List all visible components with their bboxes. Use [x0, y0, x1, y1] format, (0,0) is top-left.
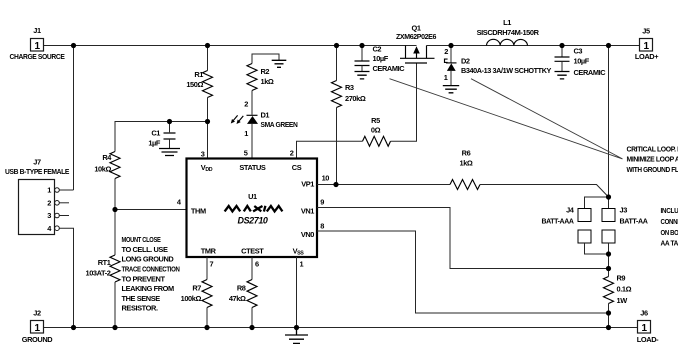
svg-text:LONG GROUND: LONG GROUND [122, 255, 175, 264]
resistor R9 0.1ohm 1W [604, 269, 632, 328]
wire CS pin to R5 [297, 141, 363, 158]
junction dots battery line [606, 194, 611, 315]
svg-text:R3: R3 [345, 83, 354, 92]
svg-text:GROUND: GROUND [22, 335, 54, 344]
wire VN0 pin 8 to R9 bottom [317, 222, 609, 313]
callout lines critical loop [390, 79, 623, 159]
svg-text:LOAD+: LOAD+ [635, 52, 659, 61]
svg-text:J7: J7 [33, 157, 41, 166]
wire THM pin 4 [115, 198, 187, 210]
svg-text:1: 1 [35, 323, 41, 334]
svg-text:VN0: VN0 [301, 230, 314, 239]
svg-text:U1: U1 [248, 192, 257, 201]
resistor R7 100kohm [181, 257, 214, 328]
svg-text:9: 9 [320, 198, 324, 207]
junction dots top rail [71, 43, 611, 48]
wire J7 pin 4 to ground rail [59, 228, 73, 327]
svg-text:ON BOARD: ON BOARD [661, 228, 678, 237]
svg-text:1W: 1W [617, 296, 628, 305]
svg-text:1kΩ: 1kΩ [261, 77, 274, 86]
transistor Q1 ZXM62P02E6 [396, 23, 436, 63]
svg-text:150Ω: 150Ω [186, 80, 203, 89]
junction dot THM [112, 207, 117, 212]
junction dots ground rail [71, 325, 611, 330]
svg-text:J3: J3 [620, 206, 628, 215]
svg-text:THE SENSE: THE SENSE [122, 294, 161, 303]
svg-text:C2: C2 [373, 44, 382, 53]
note text critical loop [627, 144, 678, 173]
connector J5 LOAD+ [635, 27, 659, 62]
svg-text:2: 2 [444, 47, 448, 56]
svg-text:AA TABS: AA TABS [661, 238, 678, 247]
svg-text:CS: CS [292, 163, 302, 172]
wire J7 pin 1 stub [59, 189, 73, 191]
ground below C3 [555, 72, 570, 79]
ground below C1 [159, 149, 180, 156]
svg-text:CONNECTION: CONNECTION [661, 217, 678, 226]
svg-text:SISCDRH74M-150R: SISCDRH74M-150R [477, 28, 540, 37]
svg-text:INCLUDES: INCLUDES [661, 206, 678, 215]
wire R6 to battery plus [480, 185, 609, 198]
svg-text:SMA GREEN: SMA GREEN [261, 120, 298, 129]
svg-text:10µF: 10µF [574, 56, 590, 65]
svg-text:J4: J4 [566, 206, 575, 215]
ground below D2 [443, 86, 459, 93]
svg-text:CRITICAL LOOP. M: CRITICAL LOOP. M [627, 144, 678, 153]
svg-text:0Ω: 0Ω [371, 126, 381, 135]
svg-text:USB B-TYPE FEMALE: USB B-TYPE FEMALE [5, 167, 69, 176]
resistor R1 150ohm [186, 46, 212, 159]
svg-text:8: 8 [320, 222, 324, 231]
wire J7 pin 3 stub [59, 215, 69, 217]
pin number 3 VDD [201, 150, 205, 159]
svg-text:Q1: Q1 [411, 23, 420, 32]
svg-text:10: 10 [322, 173, 330, 182]
logo maxim [225, 206, 283, 212]
svg-text:1µF: 1µF [148, 138, 161, 147]
svg-text:47kΩ: 47kΩ [229, 294, 246, 303]
capacitor C2 10uF CERAMIC [355, 44, 406, 73]
chip U1 DS2710 [187, 159, 318, 258]
wire bottom ground rail [44, 327, 638, 329]
wire battery stack vertical [608, 46, 610, 209]
svg-text:D2: D2 [461, 57, 470, 66]
svg-text:VN1: VN1 [301, 206, 314, 215]
svg-text:STATUS: STATUS [239, 163, 266, 172]
capacitor C3 10uF CERAMIC [555, 46, 607, 78]
svg-text:C1: C1 [151, 129, 160, 138]
svg-text:7: 7 [210, 260, 214, 269]
note text includes connection [661, 206, 678, 247]
resistor R3 270kohm [332, 46, 366, 185]
svg-text:3: 3 [201, 150, 205, 159]
ground at VSS [285, 328, 308, 344]
svg-text:BATT-AA: BATT-AA [620, 216, 649, 225]
resistor R2 1kohm [244, 64, 274, 115]
svg-text:LEAKING FROM: LEAKING FROM [122, 284, 175, 293]
svg-text:BATT-AAA: BATT-AAA [542, 216, 575, 225]
resistor R4 10kohm [94, 152, 120, 210]
svg-text:3: 3 [47, 211, 51, 220]
svg-text:1: 1 [300, 260, 304, 269]
svg-text:0.1Ω: 0.1Ω [617, 285, 632, 294]
svg-text:CERAMIC: CERAMIC [373, 64, 406, 73]
svg-text:C3: C3 [574, 47, 583, 56]
svg-text:TO PREVENT: TO PREVENT [122, 274, 166, 283]
svg-text:R9: R9 [617, 273, 626, 282]
resistor R5 0ohm [363, 116, 391, 146]
capacitor C1 1uF [148, 122, 175, 149]
wire C1 row (R4 top to VDD line) [115, 122, 208, 152]
svg-text:1: 1 [444, 73, 448, 82]
svg-text:ZXM62P02E6: ZXM62P02E6 [396, 32, 436, 41]
wire top rail right (Q1 drain to J5 LOAD+) [427, 45, 640, 47]
svg-text:CERAMIC: CERAMIC [574, 68, 607, 77]
inductor L1 SISCDRH74M-150R [477, 18, 540, 46]
svg-text:DS2710: DS2710 [238, 216, 269, 226]
svg-text:RT1: RT1 [98, 258, 111, 267]
junction dot VP1 R3 [333, 182, 338, 187]
connector J7 USB B-TYPE FEMALE [5, 157, 69, 234]
wire J7 pin 2 stub [59, 202, 69, 204]
svg-text:2: 2 [290, 149, 294, 158]
svg-text:5: 5 [244, 149, 248, 158]
wire battery plus branch left [585, 197, 609, 209]
thermistor RT1 103AT-2 [86, 210, 121, 328]
junction dots C1 row [167, 119, 210, 124]
svg-text:103AT-2: 103AT-2 [86, 269, 111, 278]
diode D2 B340A-13 schottky [444, 46, 552, 86]
svg-text:J5: J5 [642, 27, 650, 36]
connector J3 BATT-AA pads [602, 206, 649, 243]
svg-text:THM: THM [191, 206, 206, 215]
svg-text:J1: J1 [33, 26, 41, 35]
svg-text:J6: J6 [640, 309, 648, 318]
svg-text:B340A-13 3A/1W SCHOTTKY: B340A-13 3A/1W SCHOTTKY [461, 66, 551, 75]
connector J6 LOAD- [637, 309, 659, 344]
svg-text:R8: R8 [237, 284, 246, 293]
svg-text:R4: R4 [102, 153, 112, 162]
svg-text:1: 1 [35, 41, 41, 52]
svg-text:RESISTOR.: RESISTOR. [122, 304, 158, 313]
svg-text:R1: R1 [194, 70, 203, 79]
svg-text:1kΩ: 1kΩ [460, 158, 473, 167]
svg-text:270kΩ: 270kΩ [345, 94, 366, 103]
connector J4 BATT-AAA pads [542, 206, 592, 243]
svg-text:R2: R2 [261, 67, 270, 76]
svg-text:10kΩ: 10kΩ [94, 165, 111, 174]
svg-text:CHARGE SOURCE: CHARGE SOURCE [10, 52, 65, 61]
svg-text:1: 1 [642, 323, 648, 334]
svg-text:1: 1 [644, 41, 650, 52]
svg-text:TO CELL. USE: TO CELL. USE [122, 245, 168, 254]
wire VN1 pin 9 to battery minus [317, 198, 609, 269]
pin number 2 CS [290, 149, 294, 158]
svg-text:L1: L1 [503, 18, 511, 27]
svg-text:6: 6 [255, 260, 259, 269]
svg-text:2: 2 [47, 198, 51, 207]
svg-text:R7: R7 [192, 284, 201, 293]
wire VSS pin 1 to ground rail [297, 257, 304, 328]
svg-text:R6: R6 [462, 149, 471, 158]
svg-text:100kΩ: 100kΩ [181, 294, 202, 303]
svg-text:1: 1 [244, 129, 248, 138]
svg-text:J2: J2 [33, 309, 41, 318]
resistor R8 47kohm [229, 257, 259, 328]
connector J2 GROUND [22, 309, 54, 345]
LED D1 SMA GREEN [231, 110, 298, 158]
svg-text:VP1: VP1 [301, 180, 314, 189]
svg-text:10µF: 10µF [373, 54, 389, 63]
svg-text:MINIMIZE LOOP A: MINIMIZE LOOP A [627, 155, 678, 164]
svg-text:CTEST: CTEST [241, 246, 264, 255]
wire top rail left (charge source to Q1) [44, 45, 417, 47]
ground below C2 [355, 72, 370, 79]
ground above R2 [252, 54, 286, 67]
svg-text:2: 2 [244, 100, 248, 109]
wire VP1 pin 10 to R6 [317, 173, 450, 184]
svg-text:R5: R5 [371, 116, 380, 125]
svg-text:1: 1 [47, 186, 51, 195]
connector J1 CHARGE SOURCE [10, 26, 65, 61]
resistor R6 1kohm [450, 149, 480, 190]
wire R5 to Q1 gate [391, 63, 417, 141]
svg-text:MOUNT CLOSE: MOUNT CLOSE [122, 235, 161, 244]
svg-text:TMR: TMR [201, 246, 217, 255]
svg-text:WITH GROUND FL: WITH GROUND FL [627, 165, 678, 174]
wire battery minus joins [585, 243, 609, 269]
svg-text:D1: D1 [261, 110, 270, 119]
svg-text:LOAD-: LOAD- [637, 335, 659, 344]
svg-text:TRACE CONNECTION: TRACE CONNECTION [122, 265, 180, 274]
note text mount close to cell [122, 235, 180, 313]
wire J1 down to J7 pin 1 [73, 46, 75, 191]
